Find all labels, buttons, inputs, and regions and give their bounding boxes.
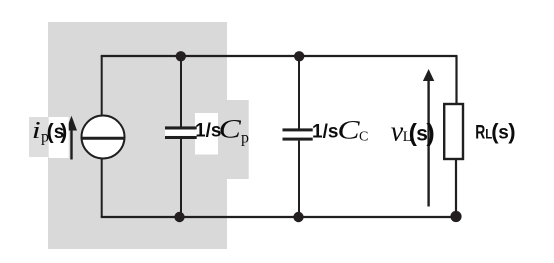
wire left branch [101,56,103,217]
shaded region [48,22,227,249]
svg-text:): ) [426,119,434,147]
svg-text:1/s: 1/s [195,121,221,142]
svg-text:s: s [498,123,509,144]
wire right branch [455,56,458,217]
svg-text:i: i [32,118,41,144]
wire bottom net [101,216,456,218]
wire top net [101,55,458,57]
label vL(s) [391,117,435,148]
label 1/sCp [195,100,249,179]
voltage arrow vL [423,69,434,207]
current direction arrow [66,116,77,160]
capacitor Cp [165,56,197,217]
junction top Cc node [294,51,304,61]
label i_p(s) [29,117,69,158]
capacitor Cc [283,56,313,217]
svg-text:): ) [60,120,67,143]
svg-text:R: R [475,121,485,143]
junction bottom RL node [450,211,461,222]
svg-text:C: C [359,130,368,145]
svg-text:C: C [337,116,360,145]
resistor RL [444,104,463,159]
junction bottom Cp node [174,212,184,222]
svg-text:(: ( [47,120,54,143]
svg-text:C: C [219,115,242,144]
current source I1 [82,116,125,159]
label RL(s) [475,119,515,144]
junction top Cp node [176,51,186,61]
svg-text:1/s: 1/s [312,122,338,143]
svg-text:): ) [508,119,515,144]
svg-text:p: p [241,130,249,147]
label 1/sCc [312,116,368,145]
junction bottom Cc node [293,212,303,222]
